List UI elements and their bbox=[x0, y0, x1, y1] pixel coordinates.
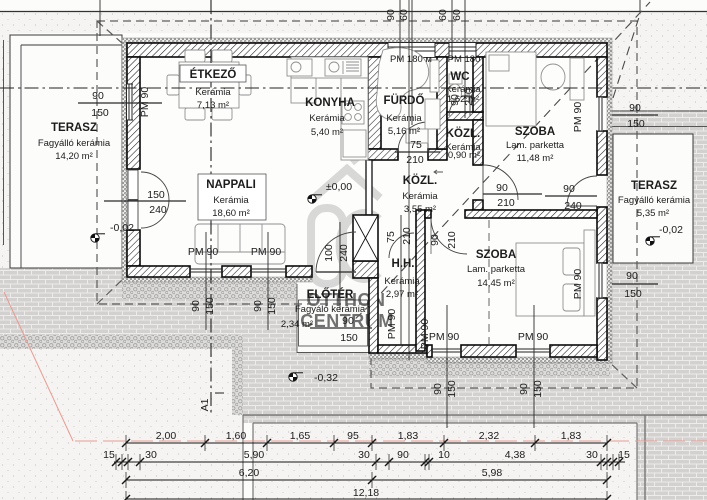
svg-text:90: 90 bbox=[397, 449, 409, 461]
svg-text:210: 210 bbox=[446, 231, 458, 249]
svg-text:Fagyáló kerámia: Fagyáló kerámia bbox=[295, 304, 366, 315]
svg-text:90: 90 bbox=[496, 182, 508, 194]
svg-text:H.H.: H.H. bbox=[392, 258, 415, 270]
svg-text:12,18: 12,18 bbox=[353, 487, 379, 499]
svg-text:14,20 m²: 14,20 m² bbox=[55, 151, 93, 162]
svg-text:150: 150 bbox=[624, 288, 642, 300]
svg-text:240: 240 bbox=[338, 244, 350, 262]
svg-text:15: 15 bbox=[103, 449, 115, 461]
svg-text:NAPPALI: NAPPALI bbox=[206, 179, 256, 191]
svg-text:3,55 m²: 3,55 m² bbox=[404, 204, 436, 215]
svg-text:4,38: 4,38 bbox=[505, 449, 526, 461]
svg-text:210: 210 bbox=[497, 197, 515, 209]
svg-text:90: 90 bbox=[190, 300, 202, 312]
svg-text:150: 150 bbox=[532, 380, 544, 398]
svg-text:90: 90 bbox=[432, 383, 444, 395]
svg-text:210: 210 bbox=[401, 227, 413, 245]
svg-text:90: 90 bbox=[342, 315, 354, 327]
svg-text:SZOBA: SZOBA bbox=[515, 126, 555, 138]
svg-text:-0,02: -0,02 bbox=[659, 224, 683, 236]
svg-text:60: 60 bbox=[437, 9, 449, 21]
svg-text:±0,00: ±0,00 bbox=[326, 181, 352, 193]
svg-text:95: 95 bbox=[347, 430, 359, 442]
svg-text:5,90: 5,90 bbox=[244, 449, 265, 461]
svg-text:0,90 m²: 0,90 m² bbox=[448, 150, 480, 161]
svg-text:150: 150 bbox=[91, 107, 109, 119]
svg-text:6,20: 6,20 bbox=[239, 467, 260, 479]
svg-text:KÖZL.: KÖZL. bbox=[403, 174, 438, 187]
svg-text:Kerámia: Kerámia bbox=[195, 87, 231, 98]
svg-text:210: 210 bbox=[406, 154, 424, 166]
svg-text:Kerámia: Kerámia bbox=[384, 276, 420, 287]
svg-text:10: 10 bbox=[438, 449, 450, 461]
svg-text:1,60: 1,60 bbox=[226, 430, 247, 442]
svg-text:PM 90: PM 90 bbox=[518, 331, 549, 343]
svg-text:ELŐTÉR: ELŐTÉR bbox=[307, 288, 354, 301]
svg-text:SZOBA: SZOBA bbox=[476, 249, 516, 261]
svg-text:60: 60 bbox=[398, 9, 410, 21]
svg-text:30: 30 bbox=[145, 449, 157, 461]
svg-text:KÖZL.: KÖZL. bbox=[446, 127, 481, 140]
svg-text:PM 90: PM 90 bbox=[188, 246, 219, 258]
svg-text:240: 240 bbox=[564, 200, 582, 212]
svg-text:2,97 m²: 2,97 m² bbox=[386, 289, 418, 300]
svg-text:90: 90 bbox=[626, 270, 638, 282]
svg-text:150: 150 bbox=[446, 380, 458, 398]
svg-text:Kerámia: Kerámia bbox=[213, 195, 249, 206]
svg-text:2,00: 2,00 bbox=[156, 430, 177, 442]
svg-text:PM 90: PM 90 bbox=[572, 102, 584, 133]
svg-text:90: 90 bbox=[563, 183, 575, 195]
svg-text:2,32: 2,32 bbox=[479, 430, 500, 442]
svg-text:Kerámia: Kerámia bbox=[309, 113, 345, 124]
svg-text:PM 90: PM 90 bbox=[139, 87, 151, 118]
svg-text:PM 90: PM 90 bbox=[429, 331, 460, 343]
svg-text:1,83: 1,83 bbox=[561, 430, 582, 442]
svg-text:90: 90 bbox=[385, 9, 397, 21]
svg-text:150: 150 bbox=[340, 332, 358, 344]
svg-text:A1: A1 bbox=[199, 398, 211, 411]
svg-text:150: 150 bbox=[204, 297, 216, 315]
svg-text:TERASZ: TERASZ bbox=[51, 122, 97, 134]
svg-text:Lam. parketta: Lam. parketta bbox=[467, 264, 526, 275]
svg-text:14,45 m²: 14,45 m² bbox=[477, 278, 515, 289]
svg-text:-0,32: -0,32 bbox=[314, 372, 338, 384]
svg-text:7,13 m²: 7,13 m² bbox=[197, 100, 229, 111]
svg-text:90: 90 bbox=[92, 90, 104, 102]
svg-text:PM 90: PM 90 bbox=[572, 269, 584, 300]
svg-text:150: 150 bbox=[266, 297, 278, 315]
svg-text:Fagyálló kerámia: Fagyálló kerámia bbox=[38, 138, 111, 149]
svg-text:Lam. parketta: Lam. parketta bbox=[506, 140, 565, 151]
svg-text:100: 100 bbox=[323, 244, 335, 262]
svg-text:210: 210 bbox=[463, 88, 475, 106]
svg-text:150: 150 bbox=[147, 189, 165, 201]
svg-text:PM 180: PM 180 bbox=[448, 54, 481, 65]
svg-text:Kerámia: Kerámia bbox=[386, 113, 422, 124]
svg-text:WC: WC bbox=[450, 71, 469, 83]
svg-text:5,40 m²: 5,40 m² bbox=[311, 127, 343, 138]
svg-text:ÉTKEZŐ: ÉTKEZŐ bbox=[190, 68, 237, 81]
svg-text:5,16 m²: 5,16 m² bbox=[388, 126, 420, 137]
svg-text:90: 90 bbox=[252, 300, 264, 312]
svg-text:90: 90 bbox=[518, 383, 530, 395]
svg-text:18,60 m²: 18,60 m² bbox=[212, 208, 250, 219]
svg-text:1,83: 1,83 bbox=[398, 430, 419, 442]
svg-text:30: 30 bbox=[358, 449, 370, 461]
svg-text:1,65: 1,65 bbox=[290, 430, 311, 442]
svg-text:75: 75 bbox=[385, 231, 397, 243]
svg-text:PM 90: PM 90 bbox=[386, 309, 398, 340]
svg-text:2,34 m²: 2,34 m² bbox=[281, 319, 313, 330]
svg-text:5,35 m²: 5,35 m² bbox=[637, 208, 669, 219]
svg-text:KONYHA: KONYHA bbox=[305, 97, 355, 109]
svg-text:Kerámia: Kerámia bbox=[402, 191, 438, 202]
svg-text:Fagyálló kerámia: Fagyálló kerámia bbox=[618, 195, 691, 206]
svg-text:90: 90 bbox=[449, 94, 461, 106]
svg-text:75: 75 bbox=[410, 139, 422, 151]
svg-text:240: 240 bbox=[149, 204, 167, 216]
svg-text:90: 90 bbox=[629, 102, 641, 114]
svg-text:60: 60 bbox=[451, 9, 463, 21]
svg-text:FÜRDŐ: FÜRDŐ bbox=[384, 94, 425, 107]
svg-text:PM 90: PM 90 bbox=[251, 246, 282, 258]
svg-text:11,48 m²: 11,48 m² bbox=[517, 153, 554, 164]
svg-text:PM 180 м: PM 180 м bbox=[390, 54, 432, 65]
svg-text:15: 15 bbox=[618, 449, 630, 461]
svg-text:30: 30 bbox=[586, 449, 598, 461]
svg-text:90: 90 bbox=[429, 234, 441, 246]
svg-text:-0,02: -0,02 bbox=[110, 222, 134, 234]
svg-text:5,98: 5,98 bbox=[482, 467, 503, 479]
svg-text:150: 150 bbox=[627, 118, 645, 130]
svg-text:TERASZ: TERASZ bbox=[631, 180, 677, 192]
